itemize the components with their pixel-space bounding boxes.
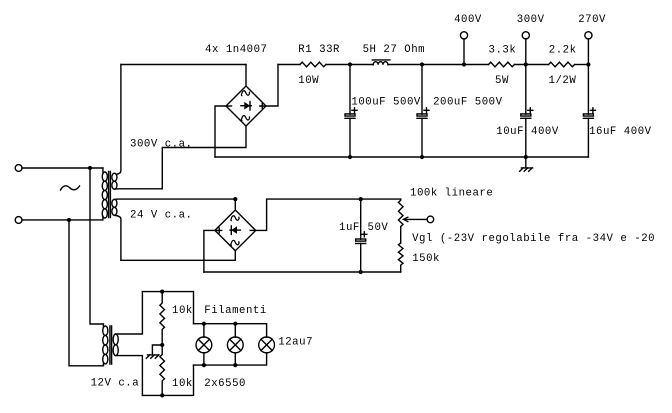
svg-text:10k: 10k (172, 305, 193, 317)
svg-text:Filamenti: Filamenti (204, 305, 266, 317)
svg-text:3.3k: 3.3k (489, 44, 517, 56)
svg-text:200uF 500V: 200uF 500V (433, 96, 502, 108)
svg-text:270V: 270V (578, 14, 606, 26)
svg-text:400V: 400V (454, 14, 482, 26)
svg-text:1/2W: 1/2W (549, 75, 577, 87)
svg-text:2x6550: 2x6550 (204, 378, 246, 390)
svg-text:24 V c.a.: 24 V c.a. (130, 210, 193, 222)
svg-text:16uF 400V: 16uF 400V (589, 126, 652, 138)
svg-text:150k: 150k (412, 253, 440, 265)
svg-text:50V: 50V (368, 222, 389, 234)
svg-text:Vgl (-23V regolabile fra -34V: Vgl (-23V regolabile fra -34V e -20 (412, 233, 655, 245)
svg-text:12au7: 12au7 (278, 337, 313, 349)
svg-text:1uF: 1uF (339, 222, 360, 234)
svg-text:5H 27 Ohm: 5H 27 Ohm (363, 44, 426, 56)
svg-text:2.2k: 2.2k (549, 44, 577, 56)
svg-text:300V c.a.: 300V c.a. (130, 139, 193, 151)
svg-text:100uF 500V: 100uF 500V (351, 96, 420, 108)
svg-text:10W: 10W (298, 75, 319, 87)
svg-text:4x 1n4007: 4x 1n4007 (205, 44, 268, 56)
svg-text:10uF 400V: 10uF 400V (496, 126, 559, 138)
svg-text:12V c.a.: 12V c.a. (91, 378, 147, 390)
svg-text:5W: 5W (495, 75, 509, 87)
svg-text:100k lineare: 100k lineare (410, 188, 493, 200)
svg-text:300V: 300V (517, 14, 545, 26)
svg-text:10k: 10k (172, 378, 193, 390)
svg-text:R1 33R: R1 33R (298, 44, 340, 56)
